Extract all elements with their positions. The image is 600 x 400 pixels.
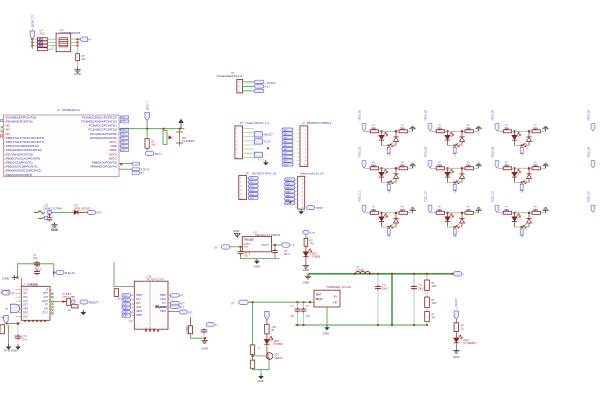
wire flag to R1 cell 7SEG_C1	[365, 212, 371, 214]
LED D13 cell	[379, 214, 388, 222]
svg-text:?OUT?: ?OUT?	[261, 244, 270, 247]
resistor usb pullup	[188, 326, 192, 334]
LED right chain	[454, 335, 463, 343]
svg-text:5V?: 5V?	[97, 211, 102, 215]
svg-text:7SEG_C4: 7SEG_C4	[587, 191, 590, 203]
LED D9 cell	[445, 169, 454, 177]
connector U?2 body	[300, 126, 308, 167]
net flag 7SEG_C3	[495, 205, 499, 212]
wire R to GND	[77, 61, 79, 68]
svg-text:(NC): (NC)	[40, 31, 46, 35]
wire LED1 to bottom 7SEG_B2	[447, 177, 449, 182]
resistor R19 cell	[370, 211, 378, 214]
ground symbol (bar) top-left	[74, 67, 80, 72]
net label oval 5V	[88, 210, 102, 214]
wire keypad reset	[50, 301, 63, 303]
svg-text:SB?: SB?	[23, 308, 28, 311]
crystal Y2? body	[254, 139, 271, 144]
net flag bottom 7SEG_A2	[453, 146, 456, 154]
capacitor C?? 0.1u	[15, 335, 22, 340]
ground bar cell 7SEG_B3	[542, 163, 548, 168]
wire Vin to DCDC	[248, 301, 314, 303]
svg-text:K4?: K4?	[123, 308, 128, 310]
svg-text:PB4(MISO/PCINT4): PB4(MISO/PCINT4)	[91, 165, 117, 169]
regulator internal text	[244, 239, 270, 250]
junction usb cap	[204, 337, 206, 339]
MCU right pin net label boxes	[119, 116, 129, 152]
connector P2? title	[246, 173, 277, 176]
wire flag to R1 cell 7SEG_B1	[365, 167, 371, 169]
power flag up arrow	[178, 119, 183, 129]
ground bar right chain	[453, 348, 459, 353]
wire 5V to regulator	[230, 246, 242, 248]
keypad IC left pin stubs	[16, 289, 22, 291]
label R 330 cell 7SEG_A3 b	[533, 125, 538, 130]
wire LED1 drop 7SEG_C1	[381, 213, 383, 217]
junction cell 7SEG_B1 2	[395, 167, 397, 169]
junction keypad reset	[62, 301, 64, 303]
LED D5 cell	[512, 132, 521, 140]
LED D8 cell (reverse)	[390, 174, 398, 184]
svg-text:?OA.3)G: ?OA.3)G	[244, 239, 254, 242]
svg-text:330: 330	[437, 208, 442, 212]
svg-text:330: 330	[371, 163, 376, 167]
ground symbol input (bar)	[51, 222, 57, 227]
svg-text:GND: GND	[51, 228, 59, 232]
LED D15 cell	[445, 214, 454, 222]
label C?? 100u second	[418, 285, 425, 291]
connector P? pins	[236, 129, 254, 160]
junction cell bottom 7SEG_A2	[454, 144, 456, 146]
label R divider 3	[432, 314, 437, 320]
wire bead to diode	[51, 211, 74, 213]
svg-text:330: 330	[466, 208, 471, 212]
label R divider 1	[432, 282, 438, 288]
svg-text:?-DB2M: ?-DB2M	[312, 256, 321, 259]
label R 330 cell 7SEG_C1 b	[400, 207, 405, 212]
wire LED1 to bottom 7SEG_B3	[514, 177, 516, 182]
net label oval B+ right	[453, 272, 464, 277]
net flag bottom 7SEG_A3	[520, 146, 523, 154]
svg-text:Header-Male2.54_1x3: Header-Male2.54_1x3	[217, 75, 242, 78]
net label oval usb top right	[206, 323, 218, 328]
svg-text:C?DE: C?DE	[2, 277, 9, 281]
label transistor Q?	[274, 354, 283, 360]
label R 330 cell 7SEG_A1 a	[371, 125, 376, 130]
svg-text:16?: 16?	[44, 308, 49, 311]
junction cell 7SEG_A3 1	[513, 130, 515, 132]
net flag 7SEG_C4	[591, 205, 595, 212]
resistor R? 10k pullup	[145, 129, 149, 149]
usb IC left pin names	[136, 294, 143, 317]
wire cell 7SEG_B3 mid	[512, 167, 532, 169]
resistor transistor branch	[265, 324, 269, 334]
keypad left text rows	[1, 290, 16, 296]
svg-text:7SEG_B2: 7SEG_B2	[424, 146, 427, 157]
LED D11 cell	[512, 169, 521, 177]
keypad reset labels	[62, 293, 76, 299]
junction cell 7SEG_B1 1	[380, 167, 382, 169]
svg-text:DC?: DC?	[23, 304, 29, 307]
capacitor C?? 100u first	[375, 274, 381, 325]
wire R to LED right chain	[455, 332, 457, 338]
net flag transistor branch	[265, 312, 269, 320]
wire base to transistor	[253, 355, 266, 357]
resistor right chain	[454, 323, 458, 332]
ground arrow keypad 2	[15, 344, 21, 349]
label R? 4k7	[82, 54, 87, 61]
label R 330 cell 7SEG_B3 b	[533, 162, 538, 167]
wire flag to resistor	[266, 320, 268, 325]
wire LED2 drop 7SEG_A2	[461, 131, 463, 137]
wire cell 7SEG_C3 mid	[512, 212, 532, 214]
net flag 7SEG_B2	[428, 161, 432, 168]
svg-text:M1A?: M1A?	[316, 298, 323, 301]
svg-text:330: 330	[437, 126, 442, 130]
wire regulator ground rail	[241, 255, 280, 259]
ground arrow transistor	[257, 370, 264, 383]
capacitor C? input	[238, 247, 244, 255]
wire main bottom rail	[295, 324, 428, 326]
resistor base lower	[250, 360, 254, 368]
junction bottom rail caps	[297, 324, 305, 326]
net flag 7SEG_B3	[495, 161, 499, 168]
wire LED1 to bottom 7SEG_C2	[447, 222, 449, 227]
svg-text:330: 330	[437, 163, 442, 167]
svg-text:SB1?: SB1?	[136, 310, 143, 313]
wire LED1 drop 7SEG_B2	[447, 168, 449, 172]
svg-text:?M?D?: ?M?D?	[316, 207, 324, 210]
wire cell bottom 7SEG_B3	[515, 182, 530, 184]
svg-text:11: 11	[169, 299, 171, 301]
resistor horizontal keypad	[71, 305, 78, 308]
junction cell 7SEG_B2 1	[446, 167, 448, 169]
label C?? 0.1u	[22, 336, 27, 342]
wire LED2 drop 7SEG_B1	[395, 168, 397, 174]
svg-text:PB5?: PB5?	[136, 314, 143, 317]
svg-text:DD?: DD?	[23, 311, 29, 314]
wire Vin branch down	[252, 302, 254, 345]
svg-text:Header?-B2T?2?_1?L: Header?-B2T?2?_1?L	[246, 122, 270, 125]
wire LED1 drop 7SEG_C2	[447, 213, 449, 217]
svg-text:A1?: A1?	[23, 292, 28, 295]
wire input bend	[34, 211, 45, 214]
wire cell 7SEG_A3 mid	[512, 130, 532, 132]
junction cell 7SEG_B2 2	[461, 167, 463, 169]
wire cell 7SEG_B2 mid	[445, 167, 465, 169]
resistor dashed red left	[114, 289, 118, 297]
wire LED1 drop 7SEG_A3	[514, 131, 516, 135]
resistor R? led	[304, 238, 308, 246]
net flag bottom 7SEG_B1	[387, 183, 390, 191]
wire cell 7SEG_A3 to gnd	[540, 130, 545, 132]
LED D4 cell (reverse)	[456, 137, 464, 147]
net flag 7SEG_A1	[362, 124, 366, 131]
net flag bottom 7SEG_C2	[453, 227, 456, 235]
resonator U? body	[56, 33, 71, 52]
value text 3.3V rows (blue)	[38, 37, 43, 47]
wire cell bottom 7SEG_B1	[382, 182, 397, 184]
svg-text:104: 104	[33, 256, 38, 260]
svg-text:330: 330	[533, 163, 538, 167]
ground arrow J?	[298, 209, 304, 214]
svg-text:BT?: BT?	[44, 292, 49, 295]
usb IC internal rail	[149, 281, 151, 329]
wire cell 7SEG_B3 to gnd	[540, 167, 545, 169]
svg-text:DO?: DO?	[23, 315, 29, 318]
svg-text:G?D GND: G?D GND	[4, 349, 19, 353]
net label oval 5V input	[215, 245, 230, 250]
LED D16 cell (reverse)	[456, 218, 464, 228]
junction mid branch	[391, 273, 393, 326]
svg-text:?.??: ?.??	[310, 232, 315, 235]
switch S? label	[182, 137, 195, 143]
svg-text:GA1: GA1	[136, 306, 142, 309]
svg-text:? ??: ? ??	[265, 86, 270, 89]
svg-text:7SEG_B3: 7SEG_B3	[491, 146, 494, 157]
wire resonator out row1	[71, 38, 78, 40]
svg-text:+_DCDC_??: +_DCDC_??	[30, 14, 34, 30]
ground bar cell 7SEG_A2	[475, 126, 481, 131]
svg-text:D2?: D2?	[136, 302, 141, 305]
junction cell 7SEG_C2 1	[446, 212, 448, 214]
svg-text:?CL2?!: ?CL2?!	[263, 141, 271, 144]
svg-text:4k7: 4k7	[82, 57, 87, 61]
LED D3 cell	[445, 132, 454, 140]
wire LED1 to bottom 7SEG_B1	[381, 177, 383, 182]
svg-text:D1?: D1?	[136, 298, 141, 301]
wire down to gnd left	[8, 325, 10, 344]
wire usb pullup	[190, 317, 192, 326]
labels DCDC in caps	[291, 306, 311, 318]
wire regulator output	[272, 244, 282, 246]
wire resonator row4 bottom	[47, 46, 53, 50]
net flag bottom 7SEG_C1	[387, 227, 390, 235]
ferrite bead FB?	[48, 211, 51, 214]
net label oval PUEL2C	[56, 270, 75, 275]
connector P2? pins and ovals	[240, 177, 258, 200]
svg-text:D-?: D-?	[180, 306, 185, 309]
label R 330 cell 7SEG_A2 a	[437, 125, 442, 130]
svg-text:16: 16	[51, 289, 53, 291]
LED D14 cell (reverse)	[390, 218, 398, 228]
net label Vin oval	[231, 300, 248, 305]
svg-text:CT-DB0?: CT-DB0?	[273, 343, 284, 346]
wire LED2 to bottom 7SEG_B3	[528, 179, 530, 183]
net text CLK/RJC	[140, 168, 150, 175]
ground bar cell 7SEG_A1	[409, 126, 415, 131]
svg-text:GND: GND	[254, 264, 262, 268]
junction loop left	[14, 277, 19, 279]
junction base node	[252, 355, 254, 361]
ground bar rail left	[303, 274, 311, 285]
ground arrow DCDC	[323, 325, 331, 336]
wire loop to PUEL2C	[54, 272, 56, 274]
label R 330 cell 7SEG_A3 a	[504, 125, 509, 130]
svg-text:15: 15	[4, 175, 6, 177]
wire LED1 drop 7SEG_A2	[447, 131, 449, 135]
wire flag to R1 cell 7SEG_B3	[498, 167, 504, 169]
junction cell bottom 7SEG_C2	[454, 226, 456, 228]
label resistor right chain	[461, 324, 465, 330]
connector P2? body	[239, 176, 247, 200]
LED D17 cell	[512, 214, 521, 222]
resistor R? 4k7 vertical	[76, 54, 80, 61]
wire usb top left	[114, 262, 134, 286]
svg-text:GND: GND	[74, 72, 82, 76]
wire filter loop	[18, 264, 54, 278]
usb IC right pin names	[160, 294, 167, 313]
wire LED1 to bottom 7SEG_C3	[514, 222, 516, 227]
svg-text:D-?: D-?	[162, 302, 167, 305]
net flag A?	[80, 37, 88, 41]
svg-text:0.?u: 0.?u	[22, 339, 27, 342]
label LED right chain	[463, 339, 477, 345]
net flag 7SEG_B1	[362, 161, 366, 168]
wire LED1 drop 7SEG_A1	[381, 131, 383, 135]
keypad IC title L? C4E3DD	[23, 283, 38, 287]
net flag bottom 7SEG_A1	[387, 146, 390, 154]
component edge left red	[0, 325, 5, 334]
junction cell 7SEG_C1 2	[395, 212, 397, 214]
junction cap2	[413, 273, 415, 326]
ground arrow connector	[263, 160, 269, 165]
junction cell bottom 7SEG_B1	[388, 181, 390, 183]
capacitor DCDC in 2	[301, 302, 307, 325]
usb IC GND diode mark	[156, 305, 167, 309]
wire LED2 to bottom 7SEG_C2	[461, 223, 463, 227]
svg-text:S8050?: S8050?	[274, 357, 283, 360]
LED transistor branch	[264, 337, 273, 345]
DCDC converter U? body	[314, 290, 340, 307]
wire LED2 to bottom 7SEG_C3	[528, 223, 530, 227]
svg-text:330: 330	[371, 126, 376, 130]
usb IC bottom pins	[145, 330, 147, 332]
wire LED2 drop 7SEG_A1	[395, 131, 397, 137]
wire cell 7SEG_B1 mid	[379, 167, 399, 169]
junction cell 7SEG_A1 2	[395, 130, 397, 132]
svg-text:DWM3.3 C?RM: DWM3.3 C?RM	[44, 206, 62, 210]
keypad IC U? body	[21, 286, 50, 320]
connector U?2 title	[302, 122, 332, 125]
resistor R12 cell	[532, 130, 540, 133]
resistor R14 cell	[399, 167, 407, 170]
component blue lower	[254, 152, 262, 157]
label R? 10k red	[151, 139, 156, 146]
svg-text:+_DCDC?: +_DCDC?	[455, 297, 458, 309]
wire LED1 drop 7SEG_B3	[514, 168, 516, 172]
wire LED2 to bottom 7SEG_A2	[461, 142, 463, 146]
usb IC U? body	[134, 281, 168, 329]
wire keypad bottom	[6, 323, 18, 325]
svg-text:+_RST_?: +_RST_?	[145, 101, 149, 113]
net flag 7SEG_A3	[495, 124, 499, 131]
ground bar cell 7SEG_C2	[475, 208, 481, 213]
label R 330 cell 7SEG_A1 b	[400, 125, 405, 130]
resonator internal electrodes	[59, 38, 68, 47]
label R 330 cell 7SEG_B2 a	[437, 162, 442, 167]
wire LED1 drop 7SEG_B1	[381, 168, 383, 172]
svg-text:330: 330	[466, 126, 471, 130]
wire resistor to led2	[266, 334, 268, 340]
net flag keypad bottom	[4, 315, 8, 323]
junction cell 7SEG_C3 1	[513, 212, 515, 214]
ground bar cell 7SEG_C1	[409, 208, 415, 213]
svg-text:K2?: K2?	[123, 300, 128, 302]
header U? body 1x3	[237, 79, 243, 93]
ground arrow keypad 1	[6, 344, 12, 349]
svg-text:330: 330	[466, 163, 471, 167]
diode D?	[74, 210, 78, 214]
connector J? pins and ovals	[285, 178, 304, 209]
resistor R24 cell	[532, 211, 540, 214]
LED D6 cell (reverse)	[523, 137, 531, 147]
junction loop right	[53, 272, 55, 274]
label R? 330 led	[310, 240, 315, 246]
net flag 7SEG_B4	[591, 161, 595, 168]
wire LED2 to bottom 7SEG_C1	[395, 223, 397, 227]
svg-text:U1A?: U1A?	[160, 298, 167, 301]
wire cell 7SEG_C1 to gnd	[407, 212, 412, 214]
svg-text:VCC: VCC	[23, 288, 28, 291]
junction cell bottom 7SEG_C1	[388, 226, 390, 228]
svg-text:7SEG_A4: 7SEG_A4	[587, 109, 590, 120]
LED D10 cell (reverse)	[456, 174, 464, 184]
junction Vin wire	[252, 301, 312, 303]
net label oval RESET	[80, 300, 99, 304]
label R 330 cell 7SEG_A2 b	[466, 125, 471, 130]
svg-text:GND: GND	[453, 355, 461, 359]
wire flag to R right chain	[455, 319, 457, 323]
net flag 7SEG_C2	[428, 205, 432, 212]
MCU left pin labels	[4, 115, 44, 176]
wire LED2 drop 7SEG_C2	[461, 213, 463, 219]
svg-text:5V?: 5V?	[188, 311, 193, 314]
wire cell 7SEG_C3 to gnd	[540, 212, 545, 214]
svg-text:1k?: 1k?	[432, 317, 437, 320]
ground bar power led	[303, 263, 309, 268]
resistor R15 cell	[436, 167, 444, 170]
svg-text:?C?: ?C?	[129, 320, 134, 323]
buffer gate blue	[11, 304, 20, 312]
ground bar usb	[201, 338, 207, 343]
wire flag to R1 cell 7SEG_A3	[498, 130, 504, 132]
svg-text:7SEG_A3: 7SEG_A3	[491, 109, 494, 120]
label R 330 cell 7SEG_B2 b	[466, 162, 471, 167]
junction regulator output	[274, 244, 276, 246]
capacitor DCDC in 1	[295, 302, 301, 325]
LED D7 cell	[379, 169, 388, 177]
keypad IC right no-connects	[51, 293, 53, 295]
svg-text:330: 330	[400, 208, 405, 212]
resistor R10 cell	[465, 130, 473, 133]
LED D1 cell	[379, 132, 388, 140]
resistor R16 cell	[465, 167, 473, 170]
label R 330 cell 7SEG_C2 a	[437, 207, 442, 212]
wire junctions to resistors	[32, 38, 37, 40]
junction node resonator outputs	[77, 38, 79, 46]
svg-text:PB0?: PB0?	[160, 294, 167, 297]
keypad IC pin names	[23, 288, 49, 318]
LED D2 cell (reverse)	[390, 137, 398, 147]
svg-text:GND: GND	[303, 281, 309, 285]
wire cell 7SEG_B2 to gnd	[473, 167, 478, 169]
svg-text:6: 6	[132, 315, 133, 317]
junction reset net	[146, 128, 181, 130]
connector P? title	[240, 122, 270, 125]
wire cell 7SEG_A1 to gnd	[407, 130, 412, 132]
svg-text:ATMEGA8-AU: ATMEGA8-AU	[62, 108, 80, 112]
